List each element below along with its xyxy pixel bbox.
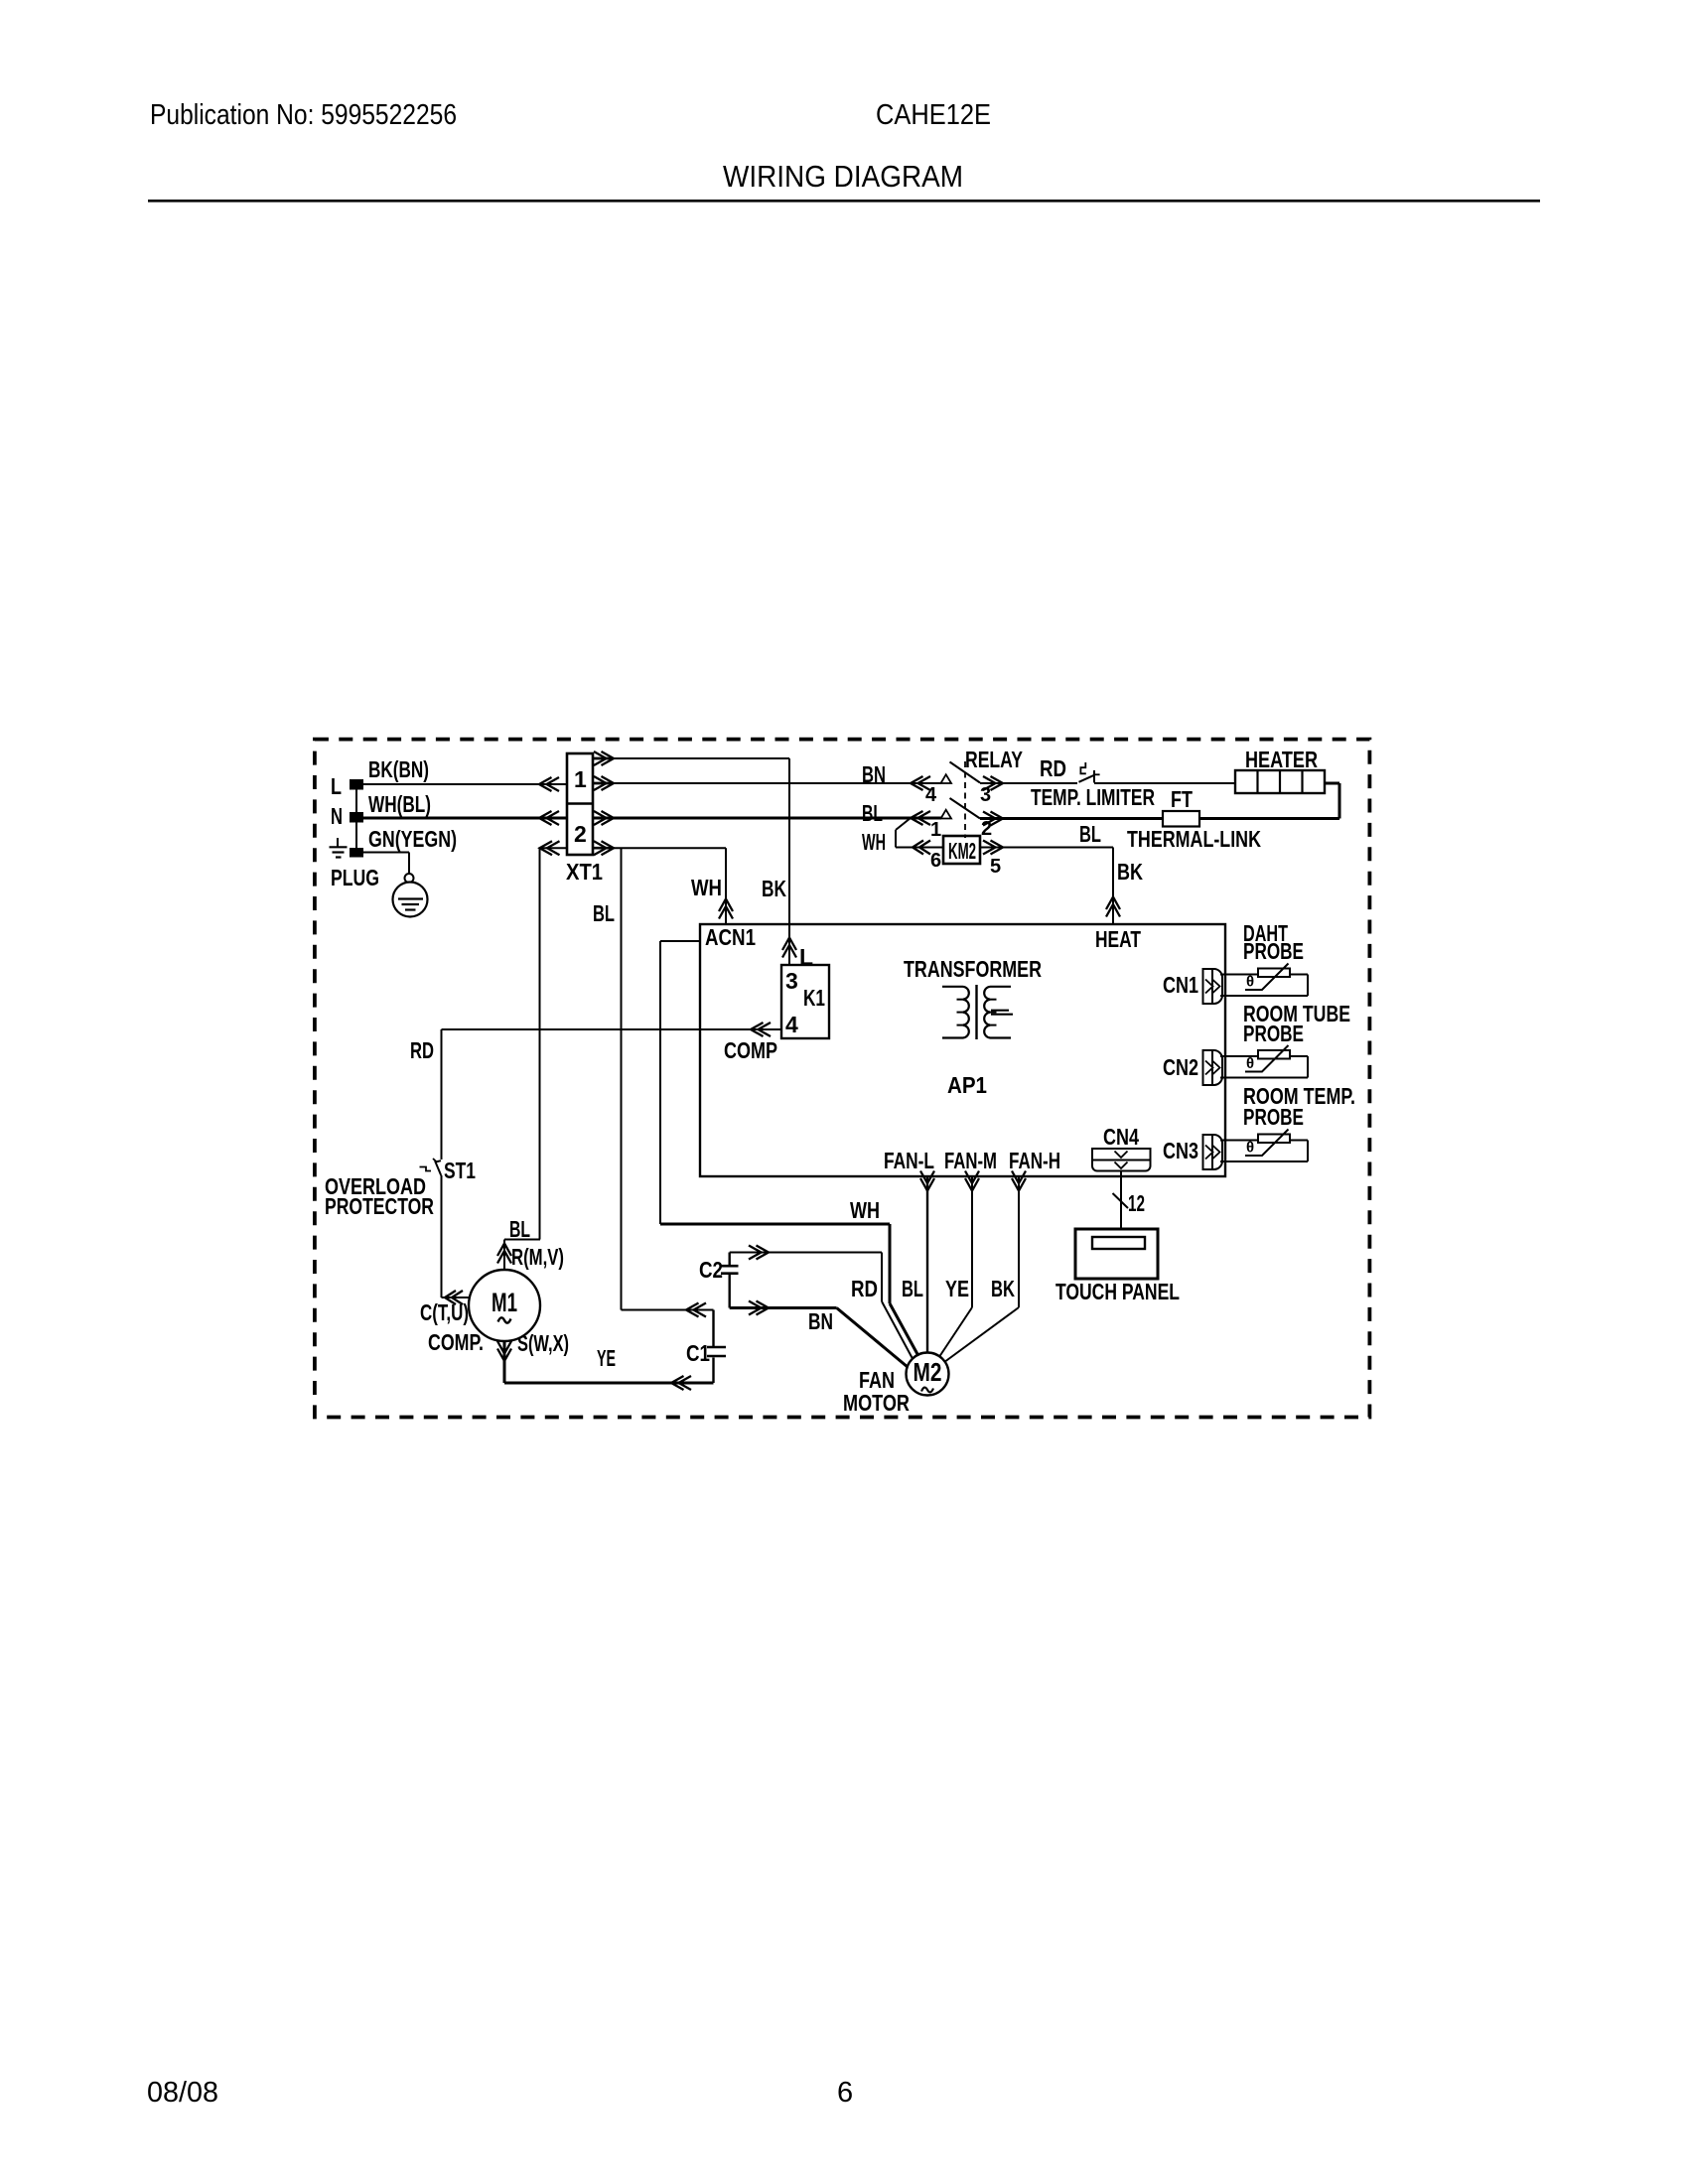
- svg-text:BN: BN: [808, 1308, 833, 1334]
- svg-text:M1: M1: [492, 1288, 517, 1317]
- svg-text:ACN1: ACN1: [705, 924, 756, 950]
- svg-text:WH: WH: [850, 1197, 880, 1223]
- svg-text:CN3: CN3: [1163, 1138, 1198, 1163]
- svg-text:PROBE: PROBE: [1243, 938, 1304, 964]
- svg-text:3: 3: [785, 968, 798, 994]
- svg-text:3: 3: [980, 784, 991, 806]
- svg-text:C1: C1: [686, 1340, 710, 1366]
- svg-text:BL: BL: [862, 800, 883, 826]
- svg-text:FT: FT: [1171, 786, 1193, 812]
- svg-text:BK: BK: [1117, 859, 1143, 885]
- svg-text:THERMAL-LINK: THERMAL-LINK: [1127, 826, 1261, 852]
- svg-text:CN2: CN2: [1163, 1054, 1198, 1080]
- svg-text:L: L: [331, 773, 342, 799]
- svg-text:PROBE: PROBE: [1243, 1021, 1304, 1046]
- svg-text:C2: C2: [699, 1257, 723, 1283]
- svg-text:θ: θ: [1246, 974, 1254, 991]
- svg-text:4: 4: [925, 784, 937, 806]
- svg-text:R(M,V): R(M,V): [511, 1244, 564, 1270]
- svg-text:FAN-M: FAN-M: [944, 1148, 997, 1173]
- svg-text:YE: YE: [597, 1345, 616, 1371]
- svg-text:C(T,U): C(T,U): [420, 1299, 469, 1325]
- svg-text:5: 5: [990, 856, 1001, 878]
- svg-text:AP1: AP1: [947, 1072, 987, 1098]
- svg-text:HEAT: HEAT: [1095, 926, 1141, 952]
- svg-text:RD: RD: [410, 1037, 434, 1063]
- svg-text:BL: BL: [509, 1216, 530, 1242]
- svg-text:θ: θ: [1246, 1140, 1254, 1157]
- svg-text:6: 6: [930, 850, 941, 872]
- svg-text:PROBE: PROBE: [1243, 1104, 1304, 1130]
- svg-text:08/08: 08/08: [147, 2077, 218, 2109]
- svg-text:WH(BL): WH(BL): [368, 791, 431, 817]
- svg-text:CN4: CN4: [1103, 1124, 1139, 1150]
- svg-text:WH: WH: [691, 875, 722, 900]
- svg-text:COMP.: COMP.: [428, 1329, 484, 1355]
- svg-text:HEATER: HEATER: [1245, 747, 1318, 772]
- svg-text:TRANSFORMER: TRANSFORMER: [904, 956, 1042, 982]
- svg-text:N: N: [331, 803, 343, 829]
- svg-text:FAN-H: FAN-H: [1009, 1148, 1060, 1173]
- svg-text:WIRING DIAGRAM: WIRING DIAGRAM: [723, 159, 963, 194]
- svg-text:6: 6: [837, 2077, 853, 2109]
- svg-text:BK(BN): BK(BN): [368, 756, 429, 782]
- svg-text:PROTECTOR: PROTECTOR: [325, 1193, 434, 1219]
- svg-text:RELAY: RELAY: [965, 747, 1023, 772]
- svg-text:CN1: CN1: [1163, 972, 1198, 998]
- svg-text:4: 4: [785, 1012, 798, 1037]
- svg-text:BL: BL: [593, 900, 615, 926]
- svg-text:TOUCH PANEL: TOUCH PANEL: [1055, 1279, 1180, 1304]
- svg-text:K1: K1: [803, 985, 825, 1011]
- svg-text:ST1: ST1: [444, 1158, 476, 1183]
- svg-text:1: 1: [574, 766, 587, 792]
- svg-text:KM2: KM2: [948, 838, 976, 864]
- svg-text:Publication No: 5995522256: Publication No: 5995522256: [150, 99, 457, 131]
- svg-text:MOTOR: MOTOR: [843, 1390, 910, 1416]
- svg-text:GN(YEGN): GN(YEGN): [368, 826, 457, 852]
- svg-text:BN: BN: [862, 761, 886, 787]
- svg-text:RD: RD: [851, 1276, 878, 1301]
- svg-text:FAN-L: FAN-L: [884, 1148, 934, 1173]
- svg-text:BK: BK: [991, 1276, 1015, 1301]
- svg-text:BK: BK: [762, 876, 786, 901]
- svg-text:XT1: XT1: [566, 859, 603, 885]
- svg-text:BL: BL: [1079, 821, 1101, 847]
- svg-text:PLUG: PLUG: [331, 865, 379, 890]
- svg-text:COMP: COMP: [724, 1037, 777, 1063]
- svg-text:2: 2: [981, 818, 992, 840]
- svg-text:12: 12: [1128, 1190, 1145, 1216]
- svg-text:WH: WH: [862, 829, 886, 855]
- svg-text:TEMP. LIMITER: TEMP. LIMITER: [1031, 784, 1155, 810]
- svg-text:RD: RD: [1040, 755, 1066, 781]
- svg-text:θ: θ: [1246, 1055, 1254, 1072]
- svg-text:1: 1: [930, 819, 941, 841]
- svg-text:M2: M2: [914, 1357, 942, 1387]
- svg-text:YE: YE: [945, 1276, 969, 1301]
- svg-text:CAHE12E: CAHE12E: [876, 99, 991, 131]
- svg-text:2: 2: [574, 821, 587, 847]
- svg-text:BL: BL: [902, 1276, 923, 1301]
